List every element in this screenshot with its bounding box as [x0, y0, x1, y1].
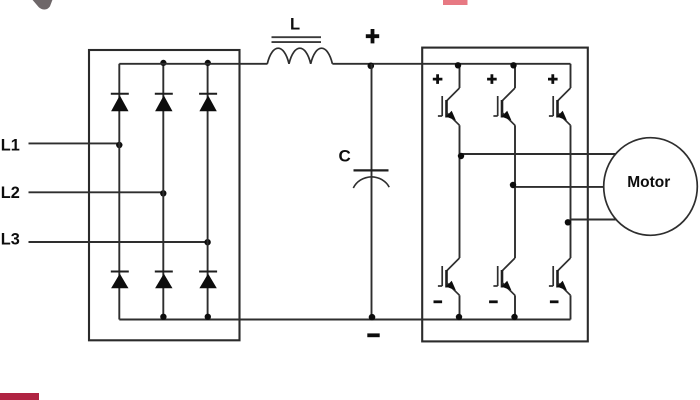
- label - (Q6): [550, 300, 559, 303]
- label - (Q4): [489, 300, 498, 303]
- svg-text:L2: L2: [1, 184, 20, 202]
- node bottom bus / Q4: [511, 314, 517, 320]
- label C: [339, 147, 351, 166]
- label + (Q1): [433, 74, 443, 84]
- wire phase W to motor: [571, 219, 618, 221]
- svg-text:C: C: [339, 147, 351, 166]
- svg-text:L1: L1: [1, 136, 20, 154]
- node bottom bus / leg3: [205, 314, 211, 320]
- wire L3 input: [29, 241, 208, 243]
- node top bus / leg2: [160, 60, 166, 66]
- label Motor: [627, 174, 670, 191]
- wire phase leg 1 middle: [459, 125, 461, 258]
- node L3 junction: [204, 239, 210, 245]
- diode D1: [111, 94, 129, 112]
- wire Q1 collector from top bus: [459, 64, 461, 88]
- capacitor C bottom wire: [371, 177, 373, 320]
- diode D6: [199, 272, 217, 289]
- motor M1: [604, 138, 698, 236]
- node phase V tap: [510, 182, 516, 188]
- diode D4: [111, 272, 129, 289]
- node top bus / Q3: [510, 62, 516, 68]
- wire Q4 emitter to bottom bus: [514, 295, 516, 319]
- diode D5: [155, 272, 173, 289]
- node L2 junction: [160, 190, 166, 196]
- capacitor C curved plate: [353, 177, 389, 188]
- label L: [290, 16, 300, 34]
- wire top DC bus (rectifier to inductor): [119, 63, 267, 65]
- node L1 junction: [116, 142, 122, 148]
- wire Q5 collector from top bus: [570, 64, 572, 88]
- node bottom bus / leg2: [160, 314, 166, 320]
- svg-text:Motor: Motor: [627, 174, 670, 191]
- wire rectifier leg 3: [207, 64, 209, 320]
- svg-text:L3: L3: [1, 231, 20, 249]
- wire phase leg 2 middle: [514, 125, 516, 258]
- capacitor C top wire: [371, 64, 373, 177]
- node bottom bus / capacitor: [369, 314, 376, 321]
- inductor L core bars: [272, 37, 322, 42]
- label - (Q2): [434, 300, 443, 303]
- wire bottom DC bus: [119, 319, 570, 321]
- node top bus / leg3: [205, 60, 211, 66]
- transistor Q5 (IGBT, top of phase 3): [549, 88, 571, 125]
- wire phase leg 3 middle: [570, 125, 572, 258]
- capacitor C top plate: [354, 169, 389, 171]
- wire L1 input: [29, 142, 120, 144]
- diode D2: [155, 94, 173, 112]
- transistor Q6 (IGBT, bottom of phase 3): [549, 258, 571, 295]
- node phase W tap: [565, 219, 571, 225]
- label + (Q3): [487, 74, 497, 84]
- wire Q2 emitter to bottom bus: [459, 295, 461, 319]
- svg-text:L: L: [290, 16, 300, 34]
- label + (Q5): [548, 74, 558, 84]
- inverter enclosure: [422, 48, 588, 342]
- wire L2 input: [29, 191, 164, 193]
- label - (DC bus negative): [367, 333, 379, 337]
- node DC bus / capacitor top: [368, 63, 375, 70]
- transistor Q4 (IGBT, bottom of phase 2): [493, 258, 515, 295]
- wire rectifier leg 2: [162, 64, 164, 320]
- wire rectifier leg 1: [118, 64, 120, 320]
- label + (DC bus positive): [366, 29, 379, 43]
- wire Q3 collector from top bus: [514, 64, 516, 88]
- transistor Q3 (IGBT, top of phase 2): [493, 88, 515, 125]
- wire phase U to motor: [460, 153, 617, 155]
- diode D3: [199, 94, 217, 112]
- node bottom bus / Q2: [456, 314, 462, 320]
- transistor Q2 (IGBT, bottom of phase 1): [438, 258, 460, 295]
- label L1: [1, 136, 20, 154]
- transistor Q1 (IGBT, top of phase 1): [438, 88, 460, 125]
- rectifier bridge enclosure: [89, 50, 240, 340]
- label L2: [1, 184, 20, 202]
- wire phase V to motor: [515, 186, 604, 188]
- node top bus / Q1: [455, 62, 461, 68]
- wire top DC bus (inductor to inverter): [332, 63, 570, 65]
- label L3: [1, 231, 20, 249]
- inductor L coil: [267, 48, 332, 64]
- wire Q6 emitter to bottom bus: [570, 295, 572, 319]
- node phase U tap: [458, 153, 464, 159]
